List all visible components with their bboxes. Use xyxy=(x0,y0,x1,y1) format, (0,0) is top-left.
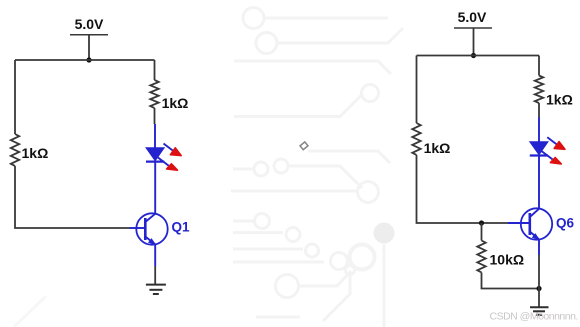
svg-text:Q6: Q6 xyxy=(556,216,575,231)
wire LED2 cathode to collector blue xyxy=(538,156,540,208)
LED light arrow 2 head xyxy=(167,164,178,170)
LED2 light arrow 1 shaft xyxy=(547,137,557,144)
junction dot right supply xyxy=(471,53,476,58)
wire emitter blue xyxy=(154,244,156,266)
transistor Q1 circle xyxy=(136,213,167,244)
svg-text:1kΩ: 1kΩ xyxy=(162,95,189,111)
wire below R5 xyxy=(538,103,540,117)
transistor Q1 base bar xyxy=(144,218,147,240)
resistor R4 10kOhm xyxy=(477,241,485,273)
wire emitter blue right xyxy=(538,239,540,255)
wire left branch lower xyxy=(15,166,130,228)
LED light arrow 1 shaft xyxy=(164,144,174,151)
ground symbol left xyxy=(146,285,166,294)
power supply stem wire right xyxy=(473,28,475,56)
wire left branch upper right circuit xyxy=(416,56,418,124)
svg-text:1kΩ: 1kΩ xyxy=(424,140,451,156)
wire right branch upper right circuit xyxy=(538,56,540,76)
power supply bar right xyxy=(454,27,492,29)
wire LED2 anode blue xyxy=(538,117,540,142)
background PCB watermark pattern xyxy=(14,8,403,327)
LED light arrow 2 shaft xyxy=(158,158,169,166)
ground symbol right xyxy=(530,307,549,315)
LED D1 cathode bar xyxy=(146,161,164,163)
junction dot emitter node xyxy=(536,286,541,291)
resistor R5 1kOhm xyxy=(535,76,543,104)
svg-text:5.0V: 5.0V xyxy=(75,16,104,32)
LED2 light arrow 2 head xyxy=(550,158,561,164)
power supply bar xyxy=(70,34,108,36)
wire base blue segment xyxy=(130,227,146,229)
top wire right xyxy=(417,55,540,57)
svg-text:1kΩ: 1kΩ xyxy=(546,92,573,108)
LED light arrow 1 head xyxy=(170,148,181,156)
wire left branch upper xyxy=(14,60,16,134)
LED2 light arrow 1 head xyxy=(554,142,565,150)
wire 10k top lead xyxy=(481,223,483,241)
resistor R1 1kOhm xyxy=(11,134,19,166)
transistor Q6 emitter arrowhead xyxy=(532,234,539,240)
transistor Q1 collector diagonal xyxy=(145,214,155,222)
cursor icon xyxy=(300,142,308,150)
wire emitter black right xyxy=(538,255,540,307)
top wire xyxy=(15,59,155,61)
svg-text:1kΩ: 1kΩ xyxy=(22,145,49,161)
transistor Q6 collector diagonal xyxy=(530,209,539,217)
LED2 light arrow 2 shaft xyxy=(542,151,553,159)
wire left branch lower right circuit xyxy=(417,155,509,223)
junction dot base node xyxy=(479,220,484,225)
transistor Q6 emitter diagonal xyxy=(530,232,539,240)
junction dot xyxy=(86,57,91,62)
power supply stem wire xyxy=(88,35,90,60)
svg-text:CSDN @Moonnnnn.: CSDN @Moonnnnn. xyxy=(490,311,578,323)
wire 10k bottom lead xyxy=(482,273,540,289)
transistor Q1 emitter arrowhead xyxy=(149,239,156,245)
svg-text:5.0V: 5.0V xyxy=(458,9,487,25)
wire below R2 xyxy=(154,108,156,124)
resistor R3 1kOhm xyxy=(412,123,420,155)
transistor Q1 emitter diagonal xyxy=(145,237,155,245)
wire right branch upper xyxy=(154,60,156,80)
transistor Q6 base bar xyxy=(528,213,531,235)
wire base blue segment right xyxy=(508,222,530,224)
wire LED cathode to collector blue xyxy=(154,162,156,213)
LED D1 triangle xyxy=(146,148,164,161)
LED D2 cathode bar xyxy=(530,154,548,156)
resistor R2 1kOhm xyxy=(150,80,158,108)
transistor Q6 circle xyxy=(521,208,552,239)
svg-text:Q1: Q1 xyxy=(172,220,191,235)
wire emitter black xyxy=(154,266,156,285)
LED D2 triangle xyxy=(530,142,548,155)
wire LED anode blue xyxy=(154,124,156,148)
svg-text:10kΩ: 10kΩ xyxy=(490,252,525,268)
